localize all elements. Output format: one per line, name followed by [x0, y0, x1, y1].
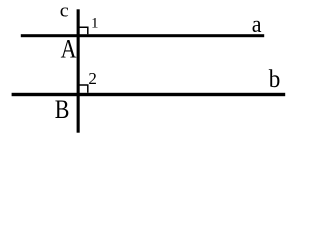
svg-text:A: A — [61, 35, 77, 64]
right angle mark at A (angle 1) — [78, 27, 88, 34]
svg-text:B: B — [55, 97, 70, 125]
line c (vertical transversal) — [77, 9, 80, 132]
svg-text:1: 1 — [91, 16, 99, 32]
right angle mark at B (angle 2) — [78, 85, 88, 93]
line b (bottom horizontal parallel line) — [12, 93, 286, 96]
svg-text:b: b — [269, 65, 281, 93]
svg-text:c: c — [60, 1, 69, 21]
svg-text:2: 2 — [88, 69, 97, 88]
line a (top horizontal parallel line) — [21, 34, 264, 37]
svg-text:a: a — [252, 11, 262, 38]
